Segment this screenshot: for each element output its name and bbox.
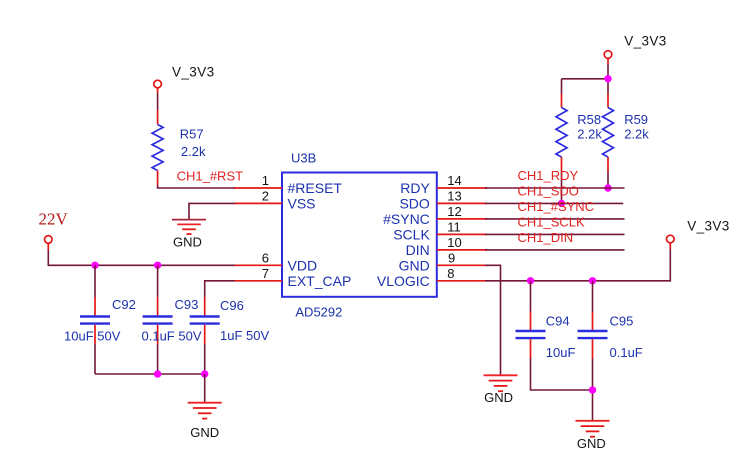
- svg-text:GND: GND: [484, 390, 513, 405]
- svg-text:6: 6: [262, 251, 269, 266]
- resistor R59: [603, 94, 614, 172]
- svg-text:14: 14: [447, 173, 461, 188]
- value 0.1uF 50V of C93: [142, 329, 202, 344]
- label C93: [175, 297, 199, 312]
- svg-text:GND: GND: [190, 425, 219, 440]
- label R57: [180, 126, 204, 141]
- wire CH1_DIN row: [485, 249, 625, 251]
- svg-text:10: 10: [447, 235, 461, 250]
- wire rail down to R58: [561, 79, 563, 94]
- value 10uF 50V of C92: [64, 329, 121, 344]
- junction VLOGIC at C95: [589, 277, 596, 284]
- power label V_3V3 top-left: [172, 65, 215, 80]
- wire 22V rail to pin 6: [48, 250, 235, 265]
- capacitor C93: [143, 297, 173, 344]
- pin number 9: [448, 251, 455, 266]
- junction bottom rail at C93: [154, 370, 161, 377]
- label C94: [546, 313, 570, 328]
- pin 14 lead: [437, 187, 487, 189]
- power port V_3V3 top-right terminal: [604, 51, 612, 64]
- power port V_3V3 right terminal: [667, 235, 675, 249]
- power label V_3V3 right: [687, 219, 730, 234]
- text GND under VSS: [173, 234, 202, 249]
- wire C96 bottom: [204, 344, 206, 374]
- svg-text:12: 12: [447, 204, 461, 219]
- pin 2 VSS name: [288, 195, 316, 211]
- svg-text:7: 7: [262, 266, 269, 281]
- power port V_3V3 top-left terminal: [154, 80, 162, 93]
- svg-text:VSS: VSS: [288, 195, 316, 211]
- svg-text:22V: 22V: [39, 210, 69, 229]
- svg-text:8: 8: [447, 266, 454, 281]
- value 2.2k of R58: [577, 126, 602, 141]
- svg-text:V_3V3: V_3V3: [687, 219, 730, 234]
- label C95: [610, 313, 634, 328]
- pin number 10: [447, 235, 461, 250]
- pin 10 DIN name: [406, 242, 430, 258]
- pin number 12: [447, 204, 461, 219]
- pin 9 lead: [437, 264, 487, 266]
- wire CH1_#SYNC row: [485, 218, 625, 220]
- wire R58 to SDO row: [561, 172, 563, 204]
- ground under VSS: [172, 220, 206, 235]
- capacitor C95: [578, 312, 608, 359]
- junction C94/C95 bottom rail: [589, 386, 596, 393]
- wire C93 bottom: [157, 344, 159, 374]
- pin 1 lead: [234, 187, 282, 189]
- wire C95 top: [592, 281, 594, 312]
- svg-text:2.2k: 2.2k: [577, 126, 602, 141]
- junction R59 on RDY row: [604, 184, 611, 191]
- wire bottom rail C92-C93-C96: [95, 373, 205, 375]
- junction bottom rail at C96: [201, 370, 208, 377]
- ground under C96: [188, 403, 222, 419]
- svg-text:13: 13: [447, 189, 461, 204]
- text GND under C95: [577, 436, 606, 451]
- net label CH1_SCLK: [518, 215, 586, 230]
- pin 2 lead: [234, 202, 282, 204]
- power port 22V terminal: [45, 236, 53, 250]
- svg-text:C95: C95: [610, 313, 634, 328]
- svg-text:R58: R58: [577, 112, 601, 127]
- ground under pin 9: [484, 375, 518, 391]
- svg-text:C94: C94: [546, 313, 570, 328]
- label C96: [220, 298, 244, 313]
- svg-text:CH1_#RST: CH1_#RST: [177, 168, 244, 183]
- capacitor C92: [80, 297, 110, 344]
- pin 12 #SYNC name: [383, 211, 430, 227]
- junction 22V rail at C93: [154, 262, 161, 269]
- pin number 11: [447, 220, 461, 235]
- svg-text:11: 11: [447, 220, 461, 235]
- wire pin 9 to GND: [485, 265, 501, 375]
- pin 14 RDY name: [400, 180, 430, 196]
- value 2.2k of R57: [181, 144, 206, 159]
- junction R58 on SDO row: [558, 200, 565, 207]
- wire rail to GND: [204, 374, 206, 403]
- IC U3B AD5292 body: [282, 173, 437, 297]
- pin number 2: [262, 189, 269, 204]
- pin number 13: [447, 189, 461, 204]
- svg-text:CH1_SCLK: CH1_SCLK: [518, 215, 586, 230]
- wire C94 top: [530, 281, 532, 312]
- pin number 8: [447, 266, 454, 281]
- wire V_3V3 down to junction: [607, 64, 609, 94]
- wire C92 top: [94, 265, 96, 297]
- pin 9 GND name: [399, 257, 430, 273]
- junction VLOGIC at C94: [527, 277, 534, 284]
- svg-text:2.2k: 2.2k: [624, 126, 649, 141]
- wire C93 top: [157, 265, 159, 297]
- svg-text:1uF 50V: 1uF 50V: [220, 328, 269, 343]
- value 0.1uF of C95: [610, 345, 643, 360]
- value 2.2k of R59: [624, 126, 649, 141]
- svg-text:V_3V3: V_3V3: [172, 65, 215, 80]
- wire CH1_SCLK row: [485, 233, 625, 235]
- text GND under C96: [190, 425, 219, 440]
- wire CH1_SDO row: [485, 202, 623, 204]
- svg-text:#RESET: #RESET: [288, 180, 343, 196]
- IC part value AD5292: [295, 305, 342, 320]
- svg-text:DIN: DIN: [406, 242, 430, 258]
- svg-text:VLOGIC: VLOGIC: [377, 273, 430, 289]
- wire VLOGIC row to V_3V3: [485, 249, 670, 281]
- junction 22V rail at C92: [91, 262, 98, 269]
- svg-text:VDD: VDD: [288, 257, 318, 273]
- wire V_3V3 to R57: [157, 93, 159, 110]
- pin 10 lead: [437, 249, 487, 251]
- pin 7 EXT_CAP name: [288, 273, 352, 289]
- value 1uF 50V of C96: [220, 328, 269, 343]
- wire C92 bottom: [94, 344, 96, 374]
- svg-text:C96: C96: [220, 298, 244, 313]
- svg-text:1: 1: [262, 173, 269, 188]
- svg-text:SCLK: SCLK: [393, 226, 430, 242]
- wire CH1_RDY row: [485, 187, 625, 189]
- svg-text:2: 2: [262, 189, 269, 204]
- ground under C95: [576, 421, 610, 437]
- svg-text:GND: GND: [173, 234, 202, 249]
- junction V_3V3 rail: [604, 75, 611, 82]
- svg-text:AD5292: AD5292: [295, 305, 342, 320]
- power label 22V: [39, 210, 69, 229]
- svg-text:R59: R59: [624, 112, 648, 127]
- wire pin 7 to C96: [205, 281, 235, 297]
- value 10uF of C94: [546, 345, 576, 360]
- svg-text:GND: GND: [399, 257, 430, 273]
- pin 12 lead: [437, 218, 487, 220]
- svg-text:GND: GND: [577, 436, 606, 451]
- pin 13 SDO name: [399, 195, 429, 211]
- svg-text:CH1_DIN: CH1_DIN: [518, 230, 574, 245]
- net label CH1_SDO: [518, 184, 579, 199]
- label C92: [112, 297, 136, 312]
- svg-text:0.1uF 50V: 0.1uF 50V: [142, 329, 202, 344]
- svg-text:CH1_RDY: CH1_RDY: [518, 168, 579, 183]
- text GND under pin 9: [484, 390, 513, 405]
- svg-text:SDO: SDO: [399, 195, 429, 211]
- svg-text:10uF: 10uF: [546, 345, 576, 360]
- wire R59 to RDY row: [607, 172, 609, 189]
- wire C94 bottom: [531, 359, 593, 391]
- resistor R58: [556, 94, 567, 172]
- power label V_3V3 top-right: [624, 33, 667, 48]
- net label CH1_RDY: [518, 168, 579, 183]
- svg-text:9: 9: [448, 251, 455, 266]
- pin number 1: [262, 173, 269, 188]
- svg-text:V_3V3: V_3V3: [624, 33, 667, 48]
- svg-text:0.1uF: 0.1uF: [610, 345, 643, 360]
- net label CH1_#RST: [177, 168, 244, 183]
- pin 8 lead: [437, 280, 487, 282]
- pin 13 lead: [437, 202, 487, 204]
- pin number 6: [262, 251, 269, 266]
- IC designator U3B: [291, 151, 316, 166]
- wire C95 bottom to GND: [592, 359, 594, 422]
- wire pullup top rail: [562, 78, 609, 80]
- svg-text:EXT_CAP: EXT_CAP: [288, 273, 352, 289]
- pin 1 #RESET name: [288, 180, 343, 196]
- pin number 7: [262, 266, 269, 281]
- svg-text:CH1_#SYNC: CH1_#SYNC: [518, 199, 595, 214]
- pin 8 VLOGIC name: [377, 273, 430, 289]
- capacitor C94: [516, 312, 546, 359]
- resistor R57: [152, 110, 163, 185]
- label R59: [624, 112, 648, 127]
- net label CH1_DIN: [518, 230, 574, 245]
- label R58: [577, 112, 601, 127]
- pin number 14: [447, 173, 461, 188]
- wire pin 2 to GND: [189, 203, 235, 220]
- pin 7 lead: [234, 280, 282, 282]
- svg-text:RDY: RDY: [400, 180, 430, 196]
- svg-text:10uF 50V: 10uF 50V: [64, 329, 121, 344]
- svg-text:C93: C93: [175, 297, 199, 312]
- net label CH1_#SYNC: [518, 199, 595, 214]
- capacitor C96: [190, 297, 220, 344]
- pin 6 VDD name: [288, 257, 318, 273]
- svg-text:#SYNC: #SYNC: [383, 211, 430, 227]
- pin 11 SCLK name: [393, 226, 430, 242]
- wire R57 to pin 1: [158, 185, 235, 188]
- pin 6 lead: [234, 264, 282, 266]
- svg-text:2.2k: 2.2k: [181, 144, 206, 159]
- svg-text:R57: R57: [180, 126, 204, 141]
- svg-text:U3B: U3B: [291, 151, 316, 166]
- svg-text:CH1_SDO: CH1_SDO: [518, 184, 579, 199]
- svg-text:C92: C92: [112, 297, 136, 312]
- pin 11 lead: [437, 233, 487, 235]
